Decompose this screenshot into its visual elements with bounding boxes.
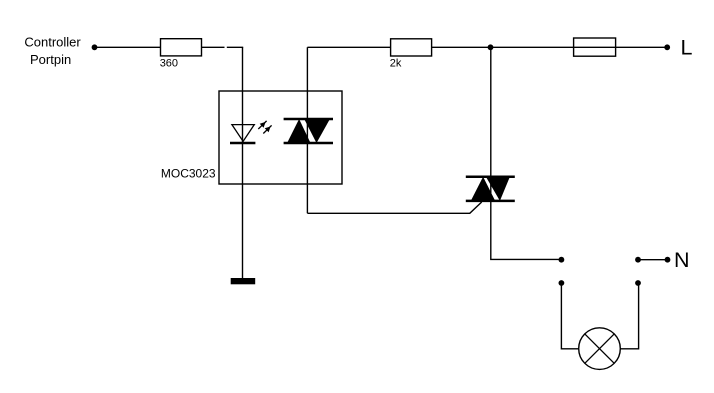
wire top rail right part (through fuse to L terminal) — [432, 46, 667, 48]
wire R1 to corner (segment b) — [227, 46, 243, 48]
svg-text:Controller: Controller — [24, 35, 81, 50]
LED D1 (inside U1) triangle — [232, 125, 254, 142]
ground — [231, 278, 256, 284]
fuse F1 — [574, 38, 616, 56]
node: switch terminal upper left — [559, 257, 565, 263]
wire vertical through opto-triac (L rail down to gate run) — [306, 47, 308, 213]
svg-text:MOC3023: MOC3023 — [161, 167, 216, 181]
wire R1 to corner (segment a) — [202, 46, 225, 48]
node: controller portpin terminal — [92, 44, 98, 50]
LED D1 cathode bar — [230, 142, 255, 145]
node: lamp lead right — [635, 280, 641, 286]
resistor R2 — [391, 39, 432, 56]
node: switch terminal upper right — [635, 257, 641, 263]
lamp LA1 circle — [579, 328, 621, 370]
gate wire (horizontal run and diagonal to Q1 gate) — [307, 202, 481, 213]
label Controller Portpin — [24, 35, 81, 67]
svg-text:N: N — [674, 248, 690, 272]
node: lamp lead left — [559, 280, 565, 286]
terminal N — [665, 257, 671, 263]
lamp LA1 cross — [585, 334, 614, 363]
resistor R1 — [161, 39, 202, 56]
wire lamp right lead — [620, 285, 638, 349]
svg-text:L: L — [681, 36, 693, 60]
svg-text:2k: 2k — [390, 58, 402, 70]
wire vertical down to LED anode and ground — [242, 47, 244, 278]
wire N terminal link — [638, 259, 668, 261]
wire top rail left part — [307, 46, 391, 48]
wire portpin to R1 — [97, 46, 161, 48]
wire vertical from junction through triac to lower elbow — [491, 47, 562, 259]
node junction on L rail — [488, 44, 494, 50]
light coupling arrow 2 — [263, 125, 271, 133]
opto-triac (inside U1) — [284, 119, 333, 143]
light coupling arrow 1 — [258, 121, 266, 129]
triac Q1 — [466, 177, 515, 201]
terminal L — [664, 44, 670, 50]
wire lamp left lead — [561, 285, 578, 349]
svg-text:Portpin: Portpin — [30, 52, 71, 67]
optocoupler U1 MOC3023 box — [219, 91, 342, 184]
svg-text:360: 360 — [160, 58, 178, 70]
